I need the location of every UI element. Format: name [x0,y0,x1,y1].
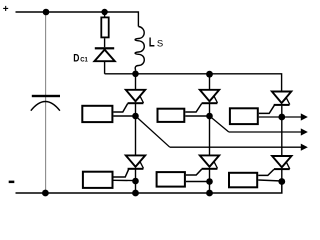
label DC1 [73,53,88,65]
wire diagonal col1 to phase c [136,116,170,147]
svg-text:+: + [3,4,9,15]
wire clamp bus (anode rail of top thyristors) [105,74,282,92]
thyristor Q1 top col1 [113,90,145,156]
svg-text:C1: C1 [80,57,88,63]
thyristor Q4 bottom col1 [114,155,146,193]
svg-text:L: L [149,36,155,50]
thyristor Q6 bottom col3 [258,156,291,182]
inductor LS [135,27,144,71]
node junction dot col2 cathode [206,178,213,185]
resistor clamp R [101,12,108,47]
output arrow phase a [282,113,308,120]
diode DC1 [94,47,114,74]
thyristor Q3 top col3 [259,92,292,157]
wire bottom negative bus [16,181,282,193]
capacitor C (dc-link, polarized) [31,95,60,111]
svg-text:S: S [157,39,163,50]
output arrow phase c [170,144,308,151]
node junction dot clamp branch top [101,9,107,15]
wire capacitor branch [45,12,47,193]
output arrow phase b [229,128,308,135]
node junction dot col3 mid [278,114,285,121]
wire col1 anode feed [135,74,137,90]
gate drive box T1 [82,106,112,122]
node junction dot bus col1 [132,71,139,78]
gate drive box B1 [83,172,113,188]
gate drive box T2 [158,109,185,122]
thyristor Q2 top col2 [185,90,219,156]
node junction dot col2 bus [206,190,213,197]
node junction dot col2 mid [206,113,213,120]
node junction dot bus col2 [206,71,213,78]
node junction dot col1 cathode [132,178,139,185]
node junction dot top capacitor [43,9,50,16]
svg-text:D: D [73,53,79,65]
node junction dot col1 mid [132,113,139,120]
node junction dot bottom capacitor [42,190,49,197]
gate drive box B3 [229,173,257,188]
wire diagonal col2 to phase b [210,116,229,132]
node junction dot col3 cathode [278,178,285,185]
node junction dot col1 bus [132,190,139,197]
wire top positive bus [16,12,139,27]
wire col2 anode feed [209,74,211,90]
gate drive box T3 [230,108,258,124]
label LS [149,36,163,50]
node - (negative terminal label) [9,181,15,184]
thyristor Q5 bottom col2 [186,155,219,193]
gate drive box B2 [157,172,185,187]
